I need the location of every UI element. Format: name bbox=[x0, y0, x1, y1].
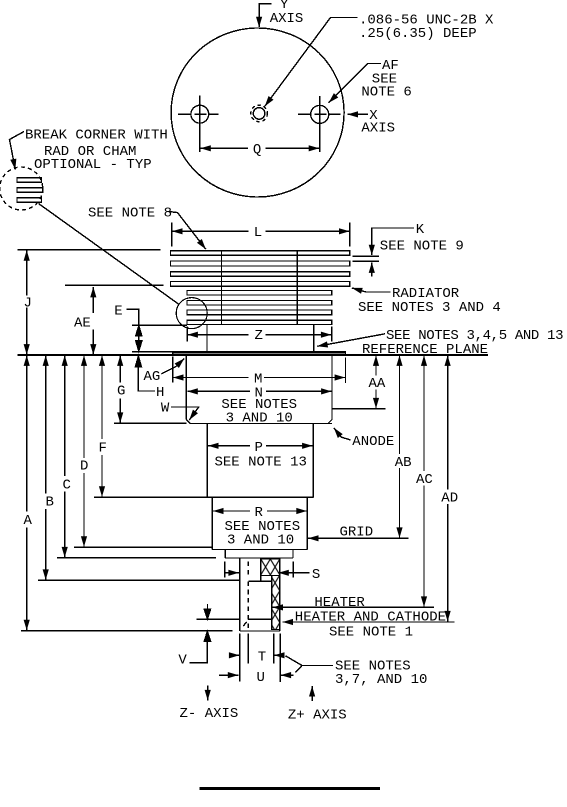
dimension AA bbox=[375, 355, 377, 375]
svg-text:3 AND 10: 3 AND 10 bbox=[226, 411, 293, 427]
dimension Z extension line left bbox=[186, 327, 188, 342]
seal ring connector right bbox=[313, 325, 315, 352]
anode cylinder right wall P bbox=[312, 424, 314, 498]
cavity top extension for B bbox=[38, 579, 240, 581]
hatch step edge bbox=[260, 576, 262, 582]
step block right wall bbox=[292, 550, 294, 559]
dimension K extension line upper bbox=[353, 255, 379, 257]
svg-text:S: S bbox=[312, 567, 320, 583]
radiator top extension line for J bbox=[18, 249, 161, 251]
dimension C bbox=[64, 355, 66, 476]
radiator wide fin 2 bbox=[171, 261, 350, 266]
leader AG bbox=[162, 359, 185, 374]
anode block bottom with chamfers bbox=[186, 420, 332, 424]
extension line below stem right outer bbox=[279, 634, 281, 683]
radiator wide fin 4 bbox=[171, 282, 350, 287]
dimension L extension line right bbox=[349, 223, 351, 247]
radiator narrow fin 8 bbox=[187, 320, 332, 324]
anode block bottom line bbox=[190, 423, 332, 425]
centerline vertical left hole bbox=[199, 96, 201, 152]
centerline vertical right hole bbox=[319, 96, 321, 152]
anode cylinder left wall P bbox=[206, 424, 208, 498]
leader anode bbox=[334, 428, 351, 440]
Y axis leader bbox=[259, 4, 271, 27]
radiator fin support column right bbox=[296, 251, 298, 325]
leader grid bbox=[308, 537, 409, 539]
svg-text:C: C bbox=[63, 477, 71, 493]
svg-text:Z+ AXIS: Z+ AXIS bbox=[288, 708, 347, 724]
cavity bottom extension for V bbox=[197, 618, 240, 620]
dimension M extension line left bbox=[172, 357, 174, 383]
svg-text:SEE NOTE 9: SEE NOTE 9 bbox=[380, 238, 464, 254]
svg-text:W: W bbox=[161, 400, 170, 416]
break corner detail fin bar 2 bbox=[17, 188, 43, 193]
svg-text:HEATER AND CATHODE: HEATER AND CATHODE bbox=[295, 610, 446, 626]
radiator narrow fin 5 bbox=[187, 291, 332, 295]
mounting hole right bbox=[311, 105, 329, 123]
cavity dashed wall upper bbox=[247, 562, 249, 577]
svg-text:AG: AG bbox=[144, 369, 161, 385]
extension line below stem left outer bbox=[239, 634, 241, 682]
dimension T arrows bbox=[230, 654, 240, 656]
anode block left wall bbox=[185, 356, 187, 420]
center tapped hole thread dashed circle bbox=[251, 105, 268, 122]
leader heater and cathode bbox=[283, 621, 455, 623]
seal ring connector left bbox=[206, 325, 208, 352]
stem bottom bbox=[240, 630, 280, 632]
dimension P line bbox=[208, 445, 250, 447]
heater cathode hatch lower column bbox=[272, 576, 280, 630]
footer separator bar bbox=[199, 787, 380, 790]
svg-text:A: A bbox=[24, 513, 33, 529]
svg-text:OPTIONAL - TYP: OPTIONAL - TYP bbox=[34, 157, 152, 173]
dimension AB bbox=[399, 355, 401, 454]
svg-text:AD: AD bbox=[441, 491, 458, 507]
svg-text:3 AND 10: 3 AND 10 bbox=[227, 532, 294, 548]
dimension AE extension line bbox=[65, 284, 164, 286]
Z minus axis arrow bbox=[207, 686, 209, 701]
flange plate left edge bbox=[172, 351, 174, 355]
flange plate top bbox=[173, 351, 346, 353]
grid ring left wall R bbox=[211, 497, 213, 549]
centerline horizontal right hole bbox=[298, 113, 341, 115]
svg-text:L: L bbox=[254, 225, 262, 241]
svg-text:HEATER: HEATER bbox=[314, 595, 365, 611]
break corner detail fin bar 1 bbox=[17, 178, 42, 183]
dimension AD bbox=[447, 355, 449, 489]
small tick mark bbox=[243, 622, 246, 626]
anode block right wall bbox=[331, 356, 333, 420]
dimension J bbox=[26, 250, 28, 295]
dimension D bbox=[83, 355, 85, 458]
break corner leader bbox=[10, 132, 25, 170]
dimension Z line bbox=[187, 334, 248, 336]
svg-text:AA: AA bbox=[369, 376, 386, 392]
dimension L extension line left bbox=[171, 223, 173, 247]
leader see note 8 bbox=[168, 211, 206, 249]
break corner detail dashed circle bbox=[0, 167, 43, 210]
rblock bottom extension for D bbox=[74, 546, 212, 548]
leader W bbox=[171, 407, 199, 420]
dimension S extension left bbox=[224, 562, 226, 578]
svg-text:3,7, AND 10: 3,7, AND 10 bbox=[335, 672, 427, 688]
fin bottom extension line for E bbox=[132, 324, 187, 326]
svg-text:REFERENCE PLANE: REFERENCE PLANE bbox=[362, 342, 488, 358]
svg-text:G: G bbox=[117, 383, 125, 399]
leader radiator bbox=[352, 288, 391, 292]
dimension N line bbox=[187, 390, 250, 392]
svg-text:NOTE 6: NOTE 6 bbox=[361, 85, 411, 101]
dimension V upper arrow bbox=[206, 604, 208, 611]
step block left wall bbox=[224, 550, 226, 559]
svg-text:AXIS: AXIS bbox=[270, 11, 304, 27]
dimension R line bbox=[213, 510, 250, 512]
dimension B bbox=[45, 355, 47, 493]
dimension AA extension line bbox=[332, 408, 386, 410]
leader AF bbox=[329, 64, 381, 103]
leader see notes 3,7 and 10 bbox=[286, 656, 334, 666]
dimension H arrow and bracket bbox=[137, 356, 139, 367]
tube envelope top view circle bbox=[171, 28, 344, 197]
svg-text:AC: AC bbox=[416, 472, 433, 488]
X axis arrow bbox=[348, 113, 369, 115]
dimension E bracket bbox=[127, 309, 139, 351]
svg-text:H: H bbox=[156, 385, 164, 401]
svg-text:AB: AB bbox=[395, 455, 412, 471]
dimension E lower arrowhead bbox=[136, 341, 142, 351]
dimension M extension line right bbox=[345, 358, 347, 384]
svg-text:AXIS: AXIS bbox=[361, 121, 395, 137]
dimension S arrows bbox=[225, 572, 239, 574]
cavity left wall dashed bbox=[247, 581, 249, 628]
dimension Z extension line right bbox=[331, 327, 333, 342]
centerline horizontal left hole bbox=[178, 113, 218, 115]
dimension E upper arrowhead bbox=[136, 326, 142, 336]
svg-text:B: B bbox=[46, 494, 54, 510]
anode block bottom extension for G bbox=[114, 422, 186, 424]
dimension K extension line lower bbox=[353, 260, 379, 262]
anode cylinder bottom bbox=[207, 496, 313, 498]
dimension A bbox=[26, 355, 28, 511]
dimension F bbox=[101, 355, 103, 439]
svg-text:.25(6.35) DEEP: .25(6.35) DEEP bbox=[359, 26, 477, 42]
svg-text:Z: Z bbox=[255, 328, 263, 344]
grid ring right wall R bbox=[306, 497, 308, 549]
dimension K bracket bbox=[372, 228, 414, 255]
dimension S extension right bbox=[292, 562, 294, 578]
svg-text:V: V bbox=[178, 652, 187, 668]
flange top extension line bbox=[132, 351, 173, 353]
svg-text:E: E bbox=[114, 304, 122, 320]
svg-text:SEE NOTE 13: SEE NOTE 13 bbox=[215, 455, 307, 471]
svg-text:Q: Q bbox=[253, 142, 261, 158]
radiator narrow fin 7 bbox=[187, 310, 332, 315]
dimension K lower arrow bbox=[371, 262, 373, 276]
radiator wide fin 1 bbox=[171, 251, 350, 255]
svg-text:BREAK CORNER WITH: BREAK CORNER WITH bbox=[25, 128, 168, 144]
svg-text:J: J bbox=[24, 296, 32, 312]
svg-text:SEE NOTES 3 AND 4: SEE NOTES 3 AND 4 bbox=[358, 300, 501, 316]
svg-text:U: U bbox=[257, 670, 265, 686]
grid ring bottom bbox=[212, 549, 307, 551]
detail reference diagonal line bbox=[39, 204, 179, 304]
Z plus axis arrow bbox=[311, 686, 313, 701]
stem left wall bbox=[239, 558, 241, 631]
dimension U arrows bbox=[219, 674, 238, 676]
cavity top line bbox=[249, 580, 272, 582]
flange plate right edge bbox=[345, 351, 347, 355]
dimension M line bbox=[173, 377, 249, 379]
svg-text:T: T bbox=[258, 650, 266, 666]
leader tapped hole note bbox=[265, 18, 358, 107]
radiator fin support column left bbox=[221, 251, 223, 325]
cavity bottom line bbox=[248, 618, 271, 620]
leader see notes 3,4,5 and 13 bbox=[317, 334, 385, 347]
reference plane line bbox=[18, 354, 489, 356]
pblock bottom extension for F bbox=[94, 496, 207, 498]
dimension V lower arrow and bracket bbox=[204, 631, 210, 641]
balloon circle on radiator bbox=[176, 298, 207, 329]
center tapped hole bbox=[253, 108, 265, 120]
svg-text:SEE NOTE 1: SEE NOTE 1 bbox=[329, 625, 413, 641]
radiator wide fin 3 bbox=[171, 272, 350, 276]
svg-text:AE: AE bbox=[74, 315, 91, 331]
svg-text:SEE NOTE 8: SEE NOTE 8 bbox=[88, 205, 172, 221]
break corner detail fin bar 3 bbox=[17, 198, 42, 203]
dimension AE bbox=[92, 287, 94, 313]
step block bottom bbox=[225, 557, 293, 559]
svg-text:GRID: GRID bbox=[340, 525, 374, 541]
dimension G bbox=[119, 355, 121, 382]
heater cathode hatch upper block bbox=[261, 559, 280, 576]
stem bottom extension for A bbox=[21, 630, 232, 632]
dimension AC bbox=[423, 355, 425, 471]
dimension L line bbox=[172, 230, 249, 232]
stem right wall bbox=[279, 558, 281, 631]
svg-text:K: K bbox=[416, 222, 425, 238]
svg-text:F: F bbox=[99, 440, 107, 456]
dimension Q line bbox=[200, 147, 248, 149]
leader heater bbox=[273, 606, 435, 608]
extension line below stem left inner bbox=[247, 634, 249, 664]
mounting hole left bbox=[191, 105, 209, 123]
step bottom extension for C bbox=[57, 557, 216, 559]
svg-text:Z- AXIS: Z- AXIS bbox=[180, 706, 239, 722]
svg-text:ANODE: ANODE bbox=[352, 434, 394, 450]
extension line below stem right inner bbox=[273, 634, 275, 664]
radiator narrow fin 6 bbox=[187, 300, 332, 305]
svg-text:D: D bbox=[80, 459, 88, 475]
